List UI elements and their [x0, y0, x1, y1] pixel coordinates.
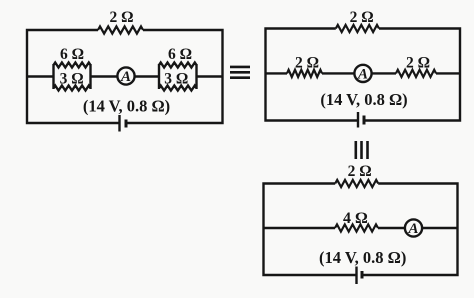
- svg-text:2 Ω: 2 Ω: [109, 9, 133, 26]
- svg-text:2 Ω: 2 Ω: [348, 163, 372, 180]
- svg-text:2 Ω: 2 Ω: [406, 55, 430, 72]
- svg-text:3 Ω: 3 Ω: [60, 71, 84, 88]
- svg-text:2 Ω: 2 Ω: [295, 55, 319, 72]
- svg-text:A: A: [407, 221, 418, 237]
- svg-text:A: A: [357, 66, 368, 82]
- svg-text:(14 V, 0.8 Ω): (14 V, 0.8 Ω): [319, 248, 406, 267]
- svg-text:4 Ω: 4 Ω: [343, 210, 368, 227]
- svg-text:6 Ω: 6 Ω: [60, 46, 84, 63]
- svg-text:(14 V, 0.8 Ω): (14 V, 0.8 Ω): [83, 97, 170, 116]
- svg-text:6 Ω: 6 Ω: [168, 46, 192, 63]
- svg-text:(14 V, 0.8 Ω): (14 V, 0.8 Ω): [320, 90, 407, 109]
- svg-text:A: A: [120, 69, 131, 85]
- svg-text:3 Ω: 3 Ω: [164, 71, 188, 88]
- svg-text:2 Ω: 2 Ω: [350, 9, 374, 26]
